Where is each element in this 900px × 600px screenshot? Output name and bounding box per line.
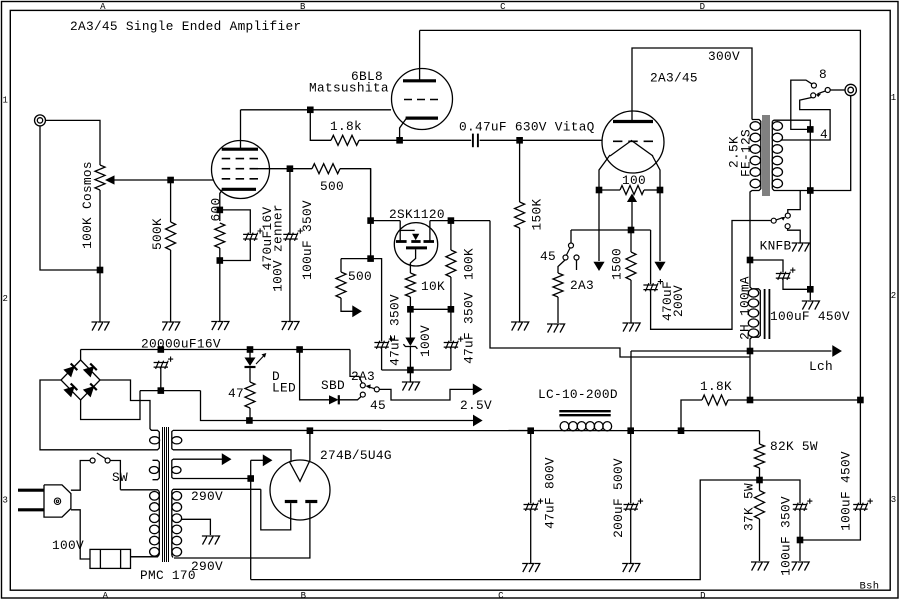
node V2 cathode junction bbox=[396, 137, 403, 144]
wire feedback branch bbox=[341, 258, 371, 260]
wire cap to 2A3 grid bbox=[480, 139, 603, 141]
wire 100K top bbox=[450, 221, 452, 250]
wire rail to 82K bbox=[759, 431, 761, 444]
svg-text:100V: 100V bbox=[418, 325, 433, 357]
wire 37K top bbox=[759, 480, 761, 491]
wire jack to pot top bbox=[46, 120, 101, 165]
switch S5 arm bbox=[368, 387, 375, 389]
wire V4 right plate to HV bottom bbox=[174, 503, 310, 558]
svg-text:45: 45 bbox=[370, 398, 386, 413]
wire LED to 47 bbox=[249, 368, 251, 382]
LED arrow bbox=[256, 355, 265, 364]
capacitor 100uF choke node bbox=[776, 272, 791, 280]
wire bypass cap bottom bbox=[220, 239, 251, 261]
wire drain rail to B+ step bbox=[490, 221, 750, 357]
bridge diode bottom-right bbox=[84, 387, 94, 397]
wire plate to 1.8k bbox=[310, 110, 331, 141]
V1 cathode lead bbox=[220, 189, 223, 210]
OPT secondary loops bbox=[772, 122, 782, 188]
PMC primary bracket top bbox=[120, 490, 159, 492]
resistor 500K bbox=[166, 222, 176, 250]
resistor 1500ohm 45 leg bbox=[553, 273, 563, 297]
arrow heater bias bbox=[263, 455, 271, 465]
V1 plate lead up bbox=[240, 110, 242, 149]
wire to 150K bbox=[519, 140, 521, 202]
svg-text:100K Cosmos: 100K Cosmos bbox=[80, 161, 95, 249]
V3 grid dashed bbox=[613, 140, 653, 142]
wire caps to ground bbox=[409, 370, 411, 382]
wire Lch down to rail bbox=[630, 351, 632, 431]
svg-text:1.8k: 1.8k bbox=[330, 119, 362, 134]
svg-text:4: 4 bbox=[820, 127, 828, 142]
wire LED top bbox=[249, 350, 251, 358]
svg-text:1.8K: 1.8K bbox=[700, 379, 732, 394]
OPT core bbox=[763, 115, 769, 196]
ground 200uF500V bbox=[622, 564, 640, 573]
svg-text:SBD: SBD bbox=[321, 378, 345, 393]
wire 200uF500V bbox=[630, 431, 632, 504]
svg-text:PMC 170: PMC 170 bbox=[140, 568, 196, 583]
node gate rail left bbox=[367, 217, 374, 224]
resistor 1.8K bbox=[702, 395, 728, 405]
V2 plate lead bbox=[419, 30, 421, 80]
node gate lower junction bbox=[367, 255, 374, 262]
PMC 2.5V winding loop bbox=[150, 437, 160, 444]
node 47 bottom bbox=[246, 417, 253, 424]
svg-text:A: A bbox=[100, 2, 106, 12]
svg-text:LC-10-200D: LC-10-200D bbox=[538, 387, 618, 402]
wire plug to fuse bbox=[71, 510, 90, 559]
capacitor 100uF 450V out bbox=[853, 503, 868, 511]
wire cap left bottom bbox=[381, 347, 383, 370]
resistor 500 feedback bbox=[336, 272, 346, 298]
wire choke cap branch bbox=[750, 260, 783, 273]
svg-text:100: 100 bbox=[622, 173, 646, 188]
capacitor 47uF 800V bbox=[524, 503, 539, 511]
PMC 2.5V winding bracket bbox=[150, 429, 159, 450]
wire pot bottom to ground rail bbox=[99, 190, 101, 270]
choke 2H core bbox=[764, 289, 766, 339]
switch S3 8 contact bbox=[811, 83, 816, 88]
switch S2 common contact bbox=[569, 243, 574, 248]
Q1 internal arrow bbox=[412, 234, 419, 241]
V1 cathode bar bbox=[222, 188, 256, 191]
resistor 82K 5W bbox=[755, 444, 765, 468]
node heater bias junction bbox=[247, 475, 254, 482]
node drain 100K junction bbox=[448, 217, 455, 224]
wire filament left down arrow bbox=[598, 190, 600, 261]
wire fuse to primary bbox=[131, 556, 153, 558]
wire jack sleeve down i bbox=[40, 126, 100, 270]
potentiometer 100 hum bbox=[620, 186, 644, 195]
node rail 1.8K branch bbox=[678, 427, 685, 434]
arrow filament left 2.5V bbox=[594, 262, 603, 270]
svg-text:D: D bbox=[700, 2, 706, 12]
V2 anode bar bbox=[403, 79, 436, 82]
wire V4 left plate to HV top bbox=[261, 489, 291, 530]
svg-text:200V: 200V bbox=[671, 285, 686, 317]
wire 150K to ground bbox=[519, 228, 521, 322]
wire 47uF800V ground bbox=[530, 509, 532, 563]
input jack J1 bbox=[35, 115, 46, 126]
tube V2 triode envelope bbox=[392, 69, 453, 130]
V4 filament V bbox=[289, 461, 310, 482]
svg-text:2H 100mA: 2H 100mA bbox=[738, 276, 753, 340]
switch S3 common bbox=[825, 88, 830, 93]
wire wiper to 500K bbox=[170, 180, 172, 222]
bridge diode bottom-left bbox=[64, 387, 74, 397]
ground 47uF800V bbox=[522, 564, 540, 573]
wire heater bias riser bbox=[250, 460, 252, 579]
node 200uF500V top bbox=[627, 427, 634, 434]
Q1 channel bars bbox=[396, 240, 407, 243]
node 20000uF top bbox=[158, 346, 165, 353]
PMC HV top lead bbox=[173, 488, 261, 490]
capacitor 470uF16V bbox=[243, 233, 258, 241]
choke LC-10-200D loops bbox=[560, 422, 612, 431]
pot wiper arrow bbox=[105, 175, 115, 184]
node out caps junction bbox=[797, 537, 804, 544]
node caps ground junction bbox=[407, 367, 414, 374]
wire feedback down bbox=[340, 259, 342, 272]
wire secondary bottom lead bbox=[772, 189, 810, 191]
node LED branch top bbox=[247, 346, 254, 353]
choke 2H loops bbox=[748, 289, 758, 337]
node wiper junction bbox=[167, 177, 174, 184]
wire 5V bottom lead bbox=[173, 478, 251, 480]
node screen junction bbox=[287, 165, 294, 172]
ground 500K bbox=[162, 322, 180, 331]
wire 10K bottom bbox=[409, 297, 411, 309]
wire 1.8K left bbox=[681, 400, 702, 431]
wire gate rail bbox=[371, 220, 401, 222]
svg-text:100V: 100V bbox=[52, 538, 84, 553]
wire Lch line bbox=[631, 350, 832, 352]
switch S5 common bbox=[374, 387, 379, 392]
wire 45 resistor to ground bbox=[557, 297, 559, 323]
Q1 internal gate link bbox=[400, 229, 415, 231]
svg-text:290V: 290V bbox=[191, 489, 223, 504]
wire 2A3 contact stub bbox=[576, 260, 578, 270]
node filament left bbox=[596, 187, 603, 194]
capacitor 47uF 350V left bbox=[374, 341, 389, 349]
bridge diode top-left bbox=[64, 367, 74, 377]
wire heater bias stub bbox=[251, 459, 263, 461]
node B+ right bbox=[857, 397, 864, 404]
svg-text:37K 5W: 37K 5W bbox=[742, 483, 757, 531]
fuse F1 bbox=[90, 549, 131, 568]
wire HV center tap bbox=[182, 519, 211, 535]
svg-text:10K: 10K bbox=[421, 279, 445, 294]
wire 200uF500V ground bbox=[630, 509, 632, 563]
wire 8 contact bbox=[791, 80, 812, 129]
wire 100K to cap right bbox=[450, 309, 452, 341]
output jack J2 bbox=[845, 84, 856, 95]
resistor 150K bbox=[515, 202, 525, 228]
wire feedback to arrow bbox=[341, 298, 353, 311]
PMC rect filament loop bbox=[172, 437, 182, 444]
PMC primary loops bbox=[150, 492, 160, 557]
wire 5V top lead arrow bbox=[173, 458, 223, 460]
node 1.8K mid bbox=[747, 397, 754, 404]
bridge diamond bbox=[61, 360, 100, 400]
wire S4 bottom to ground bbox=[788, 229, 801, 243]
svg-text:2A3: 2A3 bbox=[351, 369, 375, 384]
wire 500 to gate node bbox=[340, 169, 371, 221]
PMC HV bus bbox=[171, 491, 173, 556]
tube V3 2A3/45 envelope bbox=[602, 111, 664, 173]
svg-text:47uF 350V: 47uF 350V bbox=[388, 294, 403, 366]
wire 1.8k to cathode node bbox=[359, 139, 400, 141]
svg-text:20000uF16V: 20000uF16V bbox=[141, 336, 221, 351]
wire 100uF350V bottom bbox=[799, 509, 801, 540]
node 8ohm junction bbox=[807, 126, 814, 133]
wire 20000uF bottom bbox=[160, 367, 162, 391]
wire wiper to grid bbox=[171, 179, 213, 181]
capacitor 470uF 200V bbox=[643, 283, 658, 291]
svg-text:500K: 500K bbox=[150, 218, 165, 250]
svg-text:3: 3 bbox=[2, 496, 8, 506]
resistor 100K bbox=[446, 250, 456, 277]
ground 1500 bbox=[623, 323, 641, 332]
node grid leak junction bbox=[516, 137, 523, 144]
resistor 500 screen bbox=[312, 164, 340, 174]
capacitor 100uF 350V out bbox=[793, 503, 808, 511]
svg-text:47uF 350V: 47uF 350V bbox=[462, 292, 477, 364]
wire 600 to node bbox=[219, 248, 221, 261]
wire SBD branch bbox=[300, 350, 329, 400]
wire to ground V1 cathode bbox=[219, 261, 221, 322]
arrow feedback KNFB bbox=[353, 306, 361, 316]
choke LC-10-200D core bbox=[559, 410, 610, 412]
svg-text:2.5V: 2.5V bbox=[460, 398, 492, 413]
wire 100K bottom bbox=[450, 277, 452, 309]
wire 47 bottom bbox=[249, 408, 251, 421]
svg-text:Lch: Lch bbox=[809, 359, 833, 374]
wire 500K to ground bbox=[170, 250, 172, 322]
PMC 5V bracket bbox=[172, 459, 173, 478]
wire bridge AC left bbox=[40, 380, 151, 450]
V2 cathode bar bbox=[406, 116, 438, 119]
resistor 10K bbox=[405, 273, 415, 297]
PMC 5V loop bbox=[172, 467, 181, 474]
node cathode junction bbox=[217, 207, 224, 214]
arrow 2.5V select bbox=[473, 384, 481, 394]
svg-text:1: 1 bbox=[2, 96, 8, 106]
wire to input ground bbox=[99, 270, 101, 322]
diode SBD bbox=[329, 395, 339, 404]
ground input bbox=[92, 322, 110, 331]
wire pot right bbox=[644, 189, 660, 191]
node 47uF800V top bbox=[527, 427, 534, 434]
svg-text:3: 3 bbox=[891, 495, 897, 505]
node input ground junction bbox=[97, 267, 104, 274]
svg-text:1500: 1500 bbox=[610, 248, 625, 280]
V3 plate lead to OPT bbox=[632, 48, 752, 122]
svg-text:100V zenner: 100V zenner bbox=[271, 204, 286, 292]
svg-text:100uF 450V: 100uF 450V bbox=[839, 451, 854, 531]
plug AC body bbox=[44, 485, 71, 517]
wire SBD to 45 contact bbox=[339, 397, 361, 400]
wire jack sleeve down bbox=[810, 96, 850, 191]
svg-text:47: 47 bbox=[228, 386, 244, 401]
wire bridge plus bbox=[80, 350, 82, 361]
wire rect filament top lead bbox=[173, 429, 760, 431]
wire drain rail bbox=[430, 220, 490, 222]
bridge diode top-right bbox=[84, 367, 94, 377]
svg-text:500: 500 bbox=[348, 269, 372, 284]
V3 filament bbox=[610, 141, 653, 157]
zener D2 100V bbox=[405, 338, 415, 347]
svg-text:1: 1 bbox=[891, 93, 897, 103]
wire screen cap to ground bbox=[289, 239, 291, 322]
plug earth mark bbox=[54, 498, 60, 504]
PMC 6.3V winding loop bbox=[149, 467, 158, 474]
wire source rail bbox=[410, 308, 451, 310]
svg-text:150K: 150K bbox=[530, 199, 545, 231]
Q1 source lead bbox=[410, 249, 415, 273]
svg-text:Bsh: Bsh bbox=[860, 580, 880, 592]
V1 grid g2 dashed bbox=[222, 168, 258, 170]
node V4 filament rail bbox=[307, 427, 314, 434]
node 600 bottom bbox=[217, 257, 224, 264]
wire to coupling cap bbox=[400, 139, 472, 141]
svg-text:B: B bbox=[300, 2, 306, 12]
arrow 5V winding bbox=[222, 454, 230, 464]
tube V4 274B/5U4G envelope bbox=[270, 460, 330, 520]
capacitor 0.47uF 630V VitaQ bbox=[472, 134, 474, 148]
svg-text:500: 500 bbox=[320, 179, 344, 194]
wire cap right bottom bbox=[450, 347, 452, 370]
PMC HV loops bbox=[172, 492, 182, 557]
wire 1.8K to right vertical bbox=[728, 399, 860, 401]
PMC primary bracket bottom bbox=[131, 555, 160, 557]
switch SW contact right bbox=[105, 458, 110, 463]
wire bias to 470uF cap bbox=[650, 230, 652, 284]
wire caps bottom rail bbox=[382, 369, 451, 371]
PMC rect filament bracket bbox=[172, 430, 173, 449]
ground 150K bbox=[511, 322, 529, 331]
svg-text:Matsushita: Matsushita bbox=[309, 81, 389, 96]
wire bridge minus bbox=[81, 391, 140, 420]
ground HV center tap bbox=[202, 536, 220, 545]
plug prong bottom bbox=[18, 508, 44, 511]
node Lch choke junction bbox=[747, 348, 754, 355]
svg-text:300V: 300V bbox=[708, 49, 740, 64]
V2 grid dashed bbox=[404, 99, 438, 101]
switch S5 45 contact bbox=[360, 392, 365, 397]
V1 grid g1 dashed bbox=[222, 158, 258, 160]
svg-text:A: A bbox=[103, 591, 109, 600]
svg-text:2: 2 bbox=[891, 291, 897, 301]
svg-text:8: 8 bbox=[819, 67, 827, 82]
node plate junction bbox=[307, 107, 314, 114]
svg-text:47uF 800V: 47uF 800V bbox=[543, 457, 558, 529]
wire bias rail to switch bbox=[570, 230, 572, 243]
wire minus rail bbox=[140, 390, 201, 392]
OPT secondary bus bbox=[771, 121, 773, 188]
svg-text:0.47uF 630V VitaQ: 0.47uF 630V VitaQ bbox=[459, 120, 595, 135]
svg-text:2: 2 bbox=[2, 294, 8, 304]
switch S3 4 contact bbox=[811, 93, 816, 98]
wire bleeder to caps bbox=[760, 480, 801, 504]
wire cap to ground node bbox=[783, 278, 810, 289]
wire node to 500 bbox=[290, 168, 312, 170]
ground V1 cathode bbox=[211, 322, 229, 331]
wire 100uF350V ground bbox=[799, 540, 801, 561]
svg-text:100uF 350V: 100uF 350V bbox=[300, 200, 315, 280]
svg-text:C: C bbox=[500, 2, 506, 12]
svg-text:82K 5W: 82K 5W bbox=[770, 439, 818, 454]
svg-text:2SK1120: 2SK1120 bbox=[389, 207, 445, 222]
resistor 1500 bbox=[626, 252, 636, 280]
OPT primary loops bbox=[750, 122, 760, 188]
wire bypass cap top bbox=[220, 210, 251, 234]
V4 plate bar right bbox=[305, 500, 317, 503]
node 10K bottom bbox=[407, 306, 414, 313]
transistor Q1 2SK1120 envelope bbox=[394, 223, 437, 266]
ground 37K bbox=[751, 562, 769, 571]
wire 45 contact to resistor bbox=[558, 260, 565, 273]
capacitor 20000uF16V bbox=[154, 361, 169, 369]
wire SW to primary bbox=[110, 461, 120, 490]
resistor 37K 5W bbox=[755, 491, 765, 520]
V4 plate bar left bbox=[285, 500, 298, 503]
switch S4 bottom contact bbox=[785, 224, 790, 229]
wire filament right down arrow bbox=[659, 190, 661, 261]
wire 1500 to ground bbox=[630, 280, 632, 323]
potentiometer 100K Cosmos bbox=[95, 165, 105, 190]
node filament right bbox=[657, 187, 664, 194]
ground KNFB bbox=[792, 243, 810, 252]
wire 37K to ground bbox=[759, 519, 761, 561]
svg-text:C: C bbox=[498, 591, 504, 600]
switch S2 2A3 contact bbox=[574, 255, 579, 260]
V1 grid g3 dashed bbox=[222, 178, 258, 180]
PMC 6.3V winding bracket bbox=[153, 460, 160, 479]
wire gate vertical bbox=[370, 169, 372, 259]
wire g2 to node bbox=[258, 168, 290, 170]
switch S2 arm bbox=[567, 248, 571, 255]
wire rect filament bottom lead bbox=[173, 450, 291, 462]
wire 470uF to KNFB switch bbox=[651, 221, 771, 330]
switch S4 common bbox=[771, 218, 776, 223]
svg-text:FE-12S: FE-12S bbox=[739, 129, 754, 177]
wire 2.5V minus rail bbox=[249, 420, 474, 422]
svg-text:2A3/45: 2A3/45 bbox=[650, 71, 698, 86]
wire 1500 top bbox=[630, 230, 632, 252]
tube V1 pentode envelope bbox=[212, 141, 270, 199]
wire heater bias bottom bbox=[251, 480, 760, 580]
svg-text:200uF 500V: 200uF 500V bbox=[611, 458, 626, 538]
svg-text:LED: LED bbox=[272, 381, 296, 396]
ground out caps bbox=[792, 562, 810, 571]
wire 82K bottom bbox=[759, 468, 761, 480]
wire plate line bbox=[241, 109, 392, 111]
Q1 gate lead bbox=[399, 221, 401, 242]
svg-text:D: D bbox=[700, 591, 706, 600]
wire bridge AC right bbox=[100, 380, 150, 429]
arrow filament right 2.5V bbox=[655, 262, 664, 270]
arrow 2.5V minus bbox=[474, 416, 482, 426]
wire V4 filament right to rail bbox=[309, 431, 311, 461]
V3 anode bar bbox=[613, 120, 653, 123]
arrow Lch bbox=[833, 346, 841, 356]
ground screen cap bbox=[281, 322, 299, 331]
wire gate to coupling caps bbox=[371, 259, 382, 342]
svg-text:B: B bbox=[301, 591, 307, 600]
wire common to jack bbox=[830, 89, 845, 91]
